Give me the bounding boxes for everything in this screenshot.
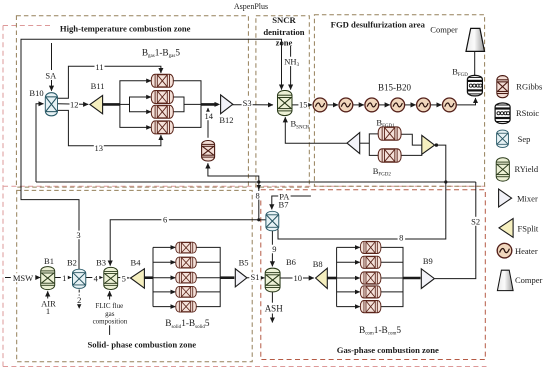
label 10 xyxy=(293,273,304,283)
label 8 right xyxy=(398,232,406,242)
wire heater chain links xyxy=(327,104,338,106)
svg-text:Mixer: Mixer xyxy=(517,193,538,203)
svg-text:composition: composition xyxy=(93,317,128,325)
wire stub to Bsolid row2 xyxy=(153,261,175,263)
reactor Bcom row5 xyxy=(360,301,380,313)
label 1 xyxy=(61,273,68,283)
wire thick B4 outlet xyxy=(144,276,153,279)
label 13 xyxy=(94,143,104,153)
separator B7 xyxy=(266,211,279,231)
mixer FGD (left-pointing) xyxy=(347,133,360,154)
reactor Bsolid row2 xyxy=(176,257,196,268)
gas-phase combustion zone red dashed box xyxy=(261,190,486,360)
splitter FGD (right-pointing) xyxy=(422,135,435,154)
svg-text:13: 13 xyxy=(95,143,104,153)
legend icon FSplit xyxy=(499,219,513,238)
wire right bracket solid reactors xyxy=(196,247,220,306)
svg-text:B15-B20: B15-B20 xyxy=(378,83,412,93)
wire heater link B18-B19 xyxy=(404,104,415,106)
svg-text:B5: B5 xyxy=(239,257,249,267)
svg-text:14: 14 xyxy=(205,111,214,121)
label S3 xyxy=(242,98,253,108)
reactor Bsolid row1 xyxy=(176,242,196,253)
wire right bracket com reactors xyxy=(381,247,403,306)
mixer B9 xyxy=(421,269,434,289)
wire ASH outlet from B6 xyxy=(271,292,273,303)
SNCR denitration zone dashed box xyxy=(256,16,309,187)
wire stub to Bcom row3 xyxy=(337,277,360,279)
svg-text:S1: S1 xyxy=(251,272,260,282)
reactor BFGD2 xyxy=(378,149,401,162)
svg-text:10: 10 xyxy=(293,273,302,283)
splitter B4 xyxy=(131,269,145,288)
wire thick B11 outlet xyxy=(103,103,120,106)
wire stream 2 purge dashed xyxy=(78,290,80,309)
svg-text:SNCR: SNCR xyxy=(272,15,296,25)
wire stub to Bsolid row3 xyxy=(153,277,175,279)
mixer B12 xyxy=(221,95,233,114)
svg-text:12: 12 xyxy=(70,100,79,110)
wire stream 15 BSNCR to heaters xyxy=(292,104,312,106)
svg-text:Bgas1-Bgas5: Bgas1-Bgas5 xyxy=(142,48,181,59)
svg-text:RYield: RYield xyxy=(515,164,539,174)
wire stub to Bcom row1 xyxy=(337,246,360,248)
wire arrow stream 8 down xyxy=(257,185,261,190)
svg-text:1: 1 xyxy=(46,306,50,316)
svg-text:B11: B11 xyxy=(91,81,105,91)
compressor Comper xyxy=(466,28,485,51)
wire junction to B7 left xyxy=(259,219,266,221)
label 6 xyxy=(161,214,169,224)
reactor BSNCR xyxy=(278,91,292,116)
wire heater link B16-B17 xyxy=(353,104,364,106)
svg-text:4: 4 xyxy=(94,273,99,283)
reactor Bgas row4 xyxy=(151,121,173,134)
separator B2 xyxy=(73,269,86,288)
wire stream 13 B10 to reactor row4 bottom xyxy=(58,110,161,145)
wire stream 1 B1 to B2 xyxy=(55,277,71,279)
legend icon Mixer xyxy=(499,189,512,207)
wire stream 14 riser from heater block to B12 inlet xyxy=(207,108,209,138)
reactor Bsolid row3 xyxy=(176,272,196,283)
reactor Bcom row3 xyxy=(360,272,380,284)
svg-text:MSW: MSW xyxy=(13,273,33,283)
wire NH3 feed into BSNCR xyxy=(290,46,292,90)
wire heater link B19-B20 xyxy=(430,104,441,106)
svg-text:Heater: Heater xyxy=(515,246,538,256)
label 2 xyxy=(76,295,84,305)
heater block 14 xyxy=(202,141,215,162)
svg-text:B7: B7 xyxy=(279,199,289,209)
label 12 xyxy=(70,100,80,110)
bank bracket wires solid zone xyxy=(153,247,220,306)
wire stub to Bsolid row1 xyxy=(153,246,175,248)
wire PA feed into B7 xyxy=(272,196,311,209)
wire riser to FGD splitter apex xyxy=(436,145,446,182)
label S1 xyxy=(249,272,260,282)
bank bracket wires zone1 xyxy=(120,81,201,128)
wire left bracket solid reactors xyxy=(152,247,154,306)
wire stub to Bsolid row5 xyxy=(153,306,175,308)
wire stub to Bsolid row4 xyxy=(153,291,175,293)
legend icon RYield xyxy=(496,158,509,181)
wire outlet Bcom row4 xyxy=(381,291,403,293)
svg-text:B6: B6 xyxy=(286,257,296,267)
wire stream 5 B3 to B4 xyxy=(118,277,130,279)
heater B18 xyxy=(391,98,405,112)
wire stream 8 from B7 bottom right up to junction xyxy=(278,182,446,239)
reactor Bcom row4 xyxy=(360,286,380,298)
svg-text:B8: B8 xyxy=(313,259,323,269)
arrows into zone1 reactors xyxy=(146,79,151,130)
wire long recycle line with S2 riser xyxy=(36,181,476,183)
legend icon RStoic xyxy=(495,103,510,124)
reactor Bgas row1 xyxy=(151,74,173,87)
reactor BFGD xyxy=(467,75,482,96)
svg-text:11: 11 xyxy=(95,62,103,72)
svg-text:B12: B12 xyxy=(219,115,233,125)
wire heater B20 to BFGD bottom xyxy=(456,98,476,105)
heater B16 xyxy=(339,98,353,112)
reactor B6 xyxy=(265,268,280,292)
svg-text:Solid- phase combustion zone: Solid- phase combustion zone xyxy=(88,340,197,350)
arrows into com reactors xyxy=(355,245,360,309)
svg-text:denitration: denitration xyxy=(263,27,304,37)
svg-text:S2: S2 xyxy=(471,217,480,227)
svg-text:B4: B4 xyxy=(131,257,142,267)
wire thick reactor bank outlet to B12 xyxy=(201,103,218,106)
svg-text:RStoic: RStoic xyxy=(516,108,539,118)
wire outlet Bcom row3 xyxy=(381,277,403,279)
label MSW xyxy=(11,273,36,283)
label 11 xyxy=(95,62,105,72)
svg-text:B9: B9 xyxy=(423,256,433,266)
svg-text:RGibbs: RGibbs xyxy=(516,82,542,92)
wire heater link B17-B18 xyxy=(378,104,389,106)
svg-text:2: 2 xyxy=(77,295,81,305)
label 15 xyxy=(298,100,308,110)
wire arrow into B12 xyxy=(215,102,221,107)
wire B10 feed from long line xyxy=(36,104,44,182)
reactor Bgas row3 xyxy=(151,105,173,118)
wire B11 outlet thin continuation xyxy=(120,103,130,105)
node junction FGD splitter apex xyxy=(435,143,438,146)
label 14 xyxy=(204,111,215,121)
splitter B8 xyxy=(316,268,328,288)
svg-text:ASH: ASH xyxy=(265,304,284,314)
wire FGD mixer output to BSNCR bottom xyxy=(285,117,347,143)
reactor Bsolid row4 xyxy=(176,286,196,297)
svg-text:Comper: Comper xyxy=(515,275,543,285)
wire left inner bracket gas reactors xyxy=(130,97,152,112)
svg-text:5: 5 xyxy=(122,273,126,283)
wire BFGD2 outlet to splitter corner xyxy=(401,154,422,155)
reactor Bsolid row5 xyxy=(176,301,196,312)
heater B19 xyxy=(417,98,431,112)
wire outlet Bsolid row4 xyxy=(196,291,220,293)
svg-text:Gas-phase combustion zone: Gas-phase combustion zone xyxy=(337,345,439,355)
svg-text:B10: B10 xyxy=(29,88,43,98)
label 5 xyxy=(120,273,127,283)
wire stream 9 B7 to B6 xyxy=(271,231,273,267)
svg-text:8: 8 xyxy=(399,232,403,242)
FGD desulfurization area dashed box xyxy=(314,15,484,187)
legend icon Comper xyxy=(497,270,513,290)
wire recycle into block 14 bottom xyxy=(208,163,259,182)
svg-text:B2: B2 xyxy=(67,258,77,268)
svg-text:B1: B1 xyxy=(44,256,54,266)
svg-text:FGD desulfurization area: FGD desulfurization area xyxy=(331,19,426,29)
separator B10 xyxy=(45,93,57,116)
high-temperature combustion zone dashed box xyxy=(16,16,248,187)
label 9 xyxy=(271,244,278,254)
svg-text:B3: B3 xyxy=(96,258,106,268)
svg-text:Sep: Sep xyxy=(518,134,531,144)
solid-phase combustion zone dashed box xyxy=(17,190,253,361)
reactor B1 xyxy=(41,267,55,290)
wire outlet Bsolid row2 xyxy=(196,261,220,263)
heater B20 xyxy=(443,98,457,112)
wire BFGD1 outlet to splitter xyxy=(401,134,422,145)
svg-text:Comper: Comper xyxy=(430,24,458,34)
label 4 xyxy=(92,273,99,283)
bank bracket wires gas zone xyxy=(337,247,403,306)
wire stream 10 B6 to B8 xyxy=(280,277,314,279)
label PA xyxy=(278,192,290,202)
wire left outer bracket gas reactors xyxy=(120,81,152,128)
node junction stream 6 / B7 xyxy=(257,218,260,221)
wire BFGD top to compressor xyxy=(474,51,476,75)
wire stub to Bcom row2 xyxy=(337,261,360,263)
wire left bracket com reactors xyxy=(336,247,338,306)
reactor Bgas row2 xyxy=(151,91,173,104)
node junction long line / S2 riser xyxy=(444,180,447,183)
wire stream 12 B10 to B11 xyxy=(58,103,88,106)
heater B15 xyxy=(313,98,327,112)
wire stream 4 B2 to B3 xyxy=(86,277,103,279)
thick process lines xyxy=(103,104,421,278)
svg-text:SA: SA xyxy=(45,70,57,80)
svg-text:9: 9 xyxy=(272,244,276,254)
wire stub to Bcom row4 xyxy=(337,291,360,293)
wire MSW feed into B1 xyxy=(5,277,40,279)
wire right inner bracket gas reactors xyxy=(173,97,184,112)
legend icon Sep xyxy=(497,130,509,147)
label S2 xyxy=(470,217,482,227)
label 3 xyxy=(75,230,83,240)
svg-text:15: 15 xyxy=(299,100,308,110)
wire stream 8 drop to junction xyxy=(258,182,260,220)
reactor Bcom row2 xyxy=(360,256,380,268)
wire stream S3 B12 to BSNCR xyxy=(232,104,273,106)
heater B17 xyxy=(365,98,379,112)
label NH3 xyxy=(284,56,301,68)
reactor B3 xyxy=(104,267,118,289)
node junction long line / stream 8 xyxy=(257,180,260,183)
wire SA feed into B10 top xyxy=(51,43,53,91)
label SA xyxy=(45,70,58,80)
svg-text:FLIC flue: FLIC flue xyxy=(95,302,123,310)
svg-text:S3: S3 xyxy=(243,98,252,108)
wire stub to Bcom row5 xyxy=(337,306,360,308)
wire AIR feed into B1 bottom xyxy=(47,291,49,298)
reactor BFGD1 xyxy=(378,127,401,140)
arrows into solid reactors xyxy=(171,245,176,309)
legend icon RGibbs xyxy=(497,76,509,98)
wire FLIC composition feed into B3 bottom xyxy=(109,291,111,299)
label 8 left xyxy=(254,190,262,200)
legend icon Heater xyxy=(497,243,512,258)
mixer B5 xyxy=(235,269,247,287)
svg-text:FSplit: FSplit xyxy=(518,223,539,233)
wire outlet Bcom row2 xyxy=(381,261,403,263)
wire outlet Bsolid row3 xyxy=(196,277,220,279)
wire thick solid bank outlet to B5 xyxy=(220,276,234,279)
wire thick gas bank outlet to B9 xyxy=(403,277,421,280)
svg-text:3: 3 xyxy=(76,230,80,240)
svg-text:6: 6 xyxy=(163,214,167,224)
reactor Bcom row1 xyxy=(360,241,380,253)
wire FGD mixer bracket xyxy=(360,142,370,144)
wire stream 6 to B3 top xyxy=(110,220,259,266)
wire S1 B5 to B6 xyxy=(247,277,265,279)
wire right outer bracket gas reactors xyxy=(173,81,201,128)
svg-text:1: 1 xyxy=(62,273,66,283)
wire stream 3: B2 top up, left, up, right along y=40, down into BSNCR top xyxy=(21,39,282,269)
splitter B11 xyxy=(90,95,103,113)
wire thick B8 outlet xyxy=(327,277,336,280)
svg-text:AspenPlus: AspenPlus xyxy=(234,2,268,11)
svg-text:High-temperature combustion zo: High-temperature combustion zone xyxy=(60,23,191,33)
wire stream 11 B10 to reactor row1 top xyxy=(58,66,161,98)
svg-text:8: 8 xyxy=(255,190,259,200)
